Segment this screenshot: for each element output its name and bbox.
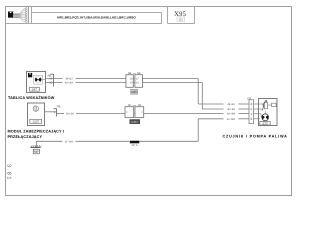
wire 3 (3N-2K): [45, 112, 250, 114]
247 designator box: [30, 87, 40, 91]
svg-text:R367: R367: [131, 120, 138, 124]
svg-text:49–BJ: 49–BJ: [65, 78, 73, 81]
svg-text:B3: B3: [179, 18, 183, 22]
233 designator box: [260, 122, 270, 126]
svg-text:2: 2: [250, 107, 252, 111]
sender trim resistor box: [272, 103, 277, 107]
component 247 instrument panel box: [27, 72, 46, 93]
svg-text:NB: NB: [137, 72, 141, 75]
svg-text:MH: MH: [34, 151, 38, 154]
247 gauge wire stub: [41, 79, 45, 81]
header harness connector icon: black plug: [8, 12, 13, 18]
svg-text:R36: R36: [132, 90, 138, 94]
inline connector pair lower: left half: [125, 107, 134, 118]
dashes between halves: [133, 79, 134, 83]
stubs from strip to pump box: [254, 104, 259, 119]
svg-text:2B: 2B: [138, 104, 141, 107]
svg-text:233: 233: [262, 122, 267, 126]
inline connector pair R36 upper: right half: [135, 75, 143, 88]
connector name box lower: [130, 120, 140, 124]
svg-text:DP 6: DP 6: [132, 144, 138, 147]
svg-text:PRZEŁĄCZAJĄCY: PRZEŁĄCZAJĄCY: [8, 135, 43, 139]
svg-text:4H–BJ: 4H–BJ: [227, 108, 235, 111]
svg-text:247: 247: [32, 88, 37, 92]
ground symbol MH: [31, 145, 42, 147]
svg-text:3: 3: [250, 117, 252, 121]
svg-text:49–BJ: 49–BJ: [227, 103, 235, 106]
fuel level sender symbol: [264, 102, 267, 108]
1337 designator box: [30, 119, 42, 123]
X95 sheet code B3: [177, 17, 185, 21]
svg-text:4: 4: [250, 102, 252, 106]
svg-text:3.81: 3.81: [6, 164, 12, 181]
inline connector pair R36 upper: left half: [126, 75, 133, 88]
svg-text:4H–BA: 4H–BA: [65, 82, 73, 85]
svg-text:1337: 1337: [32, 120, 39, 124]
svg-text:3N–2K: 3N–2K: [66, 113, 74, 116]
header fan terminals: [25, 7, 27, 22]
svg-text:PB: PB: [57, 105, 61, 108]
dash between halves: [134, 113, 135, 115]
header fan wires: [13, 8, 25, 21]
svg-text:1F–NO: 1F–NO: [65, 140, 73, 143]
svg-text:TABLICA WSKAŹNIKÓW: TABLICA WSKAŹNIKÓW: [8, 95, 55, 100]
connector bracket of 1337: [54, 109, 57, 117]
header fan box right edges: [28, 6, 30, 24]
wire 1 (49-BJ): [46, 79, 250, 105]
connector bracket of 247: [51, 74, 54, 87]
svg-text:1F–NO: 1F–NO: [227, 118, 235, 121]
ground designator box: [33, 149, 39, 154]
splice DP6: [130, 141, 140, 144]
internal wiring: [259, 104, 272, 122]
svg-text:2B: 2B: [128, 104, 131, 107]
svg-text:MR1;MR2;PQT;JHT;XBA;MX8;DA8E;L: MR1;MR2;PQT;JHT;XBA;MX8;DA8E;LHE1;BRC;UR…: [57, 16, 136, 20]
247 inner compartment: [34, 75, 43, 84]
1337 switch icon: [33, 106, 38, 111]
component 1337 module box: [28, 103, 45, 126]
svg-text:3H–BN: 3H–BN: [227, 113, 235, 116]
svg-text:CZUJNIK I POMPA PALIWA: CZUJNIK I POMPA PALIWA: [223, 135, 288, 139]
connector R36 name box: [131, 89, 138, 94]
svg-text:1: 1: [250, 112, 252, 116]
X95 box: [167, 6, 169, 24]
fuel pump motor icon: [262, 114, 269, 121]
svg-text:NB: NB: [128, 72, 132, 75]
wire 2 (4H-BA): [46, 83, 250, 110]
247 warning lamp icon: [28, 73, 32, 77]
ground wire (1F-NO): [36, 119, 249, 148]
page frame: [6, 7, 292, 196]
247 fuel gauge icon: [35, 76, 41, 82]
harness codes box: [32, 12, 162, 14]
inline connector pair lower: right half: [135, 107, 144, 118]
component 233 fuel sender+pump box: [259, 99, 278, 126]
header bottom line: [5, 6, 195, 24]
svg-text:MODUŁ ZABEZPIECZAJĄCY I: MODUŁ ZABEZPIECZAJĄCY I: [8, 130, 64, 134]
